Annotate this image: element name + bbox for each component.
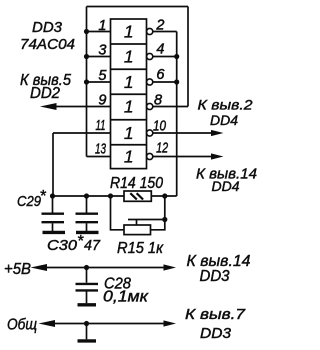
arrow ground left xyxy=(39,320,56,327)
arrow output 12 to DD4 pin14 xyxy=(211,153,224,159)
svg-text:R15 1к: R15 1к xyxy=(117,240,164,257)
node output bus pin4 xyxy=(174,54,179,59)
wire output pin12 to arrow xyxy=(153,156,212,158)
arrow ground rail to DD3 pin7 xyxy=(164,320,177,326)
svg-text:74AC04: 74AC04 xyxy=(20,36,75,53)
node input bus pin1 xyxy=(84,29,89,34)
arrow +5V rail to DD3 pin14 xyxy=(164,264,177,270)
svg-text:C30: C30 xyxy=(47,237,78,254)
svg-text:C29: C29 xyxy=(17,193,42,210)
svg-text:DD4: DD4 xyxy=(210,112,238,128)
svg-text:13: 13 xyxy=(95,142,106,158)
svg-text:Общ: Общ xyxy=(7,317,37,334)
capacitor C30 plates xyxy=(76,212,99,214)
divider 4-5 xyxy=(111,119,147,121)
svg-text:DD3: DD3 xyxy=(200,268,230,285)
svg-text:1: 1 xyxy=(124,147,134,167)
inverter bubble pin4 xyxy=(147,53,153,59)
wire input pin9 from DD2 arrow xyxy=(54,106,111,108)
divider 1-2 xyxy=(111,43,147,45)
capacitor C30 leads xyxy=(86,196,88,213)
inverter bubble pin6 xyxy=(147,79,153,85)
resistor R14 body xyxy=(124,191,151,201)
node C29 top xyxy=(50,193,55,198)
wire left bus verticals inputs 1-3-5-11-13 xyxy=(86,7,88,157)
wire output pin8 to feedback xyxy=(153,106,188,108)
wire output pin4 xyxy=(153,56,177,58)
wire input pin13 xyxy=(87,156,111,158)
capacitor C29 leads xyxy=(52,196,54,213)
divider 5-6 xyxy=(111,144,147,146)
wire input pin1 xyxy=(87,31,111,33)
wire bottom bus node A xyxy=(53,195,125,197)
svg-text:DD4: DD4 xyxy=(212,178,240,194)
svg-text:9: 9 xyxy=(98,93,106,109)
node R15 right xyxy=(162,193,167,198)
wire input pin5 xyxy=(87,81,111,83)
svg-text:1: 1 xyxy=(124,72,134,92)
svg-text:1: 1 xyxy=(124,123,134,143)
node R15 left xyxy=(108,193,113,198)
svg-text:8: 8 xyxy=(154,93,162,109)
svg-text:0,1мк: 0,1мк xyxy=(103,289,149,306)
svg-text:1: 1 xyxy=(124,97,134,117)
divider 2-3 xyxy=(111,68,147,70)
wire ground stub below rail xyxy=(86,324,88,340)
svg-text:R14 150: R14 150 xyxy=(110,175,163,192)
node C28 top xyxy=(84,265,89,270)
node R15 tap junction xyxy=(162,217,167,222)
arrow +5V left xyxy=(31,264,48,271)
svg-text:2: 2 xyxy=(155,18,164,34)
wire output pin2 xyxy=(153,31,177,33)
svg-text:1: 1 xyxy=(124,22,134,42)
svg-text:К выв.2: К выв.2 xyxy=(198,97,253,113)
wire output pin6 xyxy=(153,81,177,83)
divider 3-4 xyxy=(111,93,147,95)
capacitor C28 leads xyxy=(86,268,88,283)
svg-text:47: 47 xyxy=(84,237,101,254)
svg-text:1: 1 xyxy=(124,47,134,67)
wire input pin11 xyxy=(53,132,111,134)
wire right feedback vertical from output 8 xyxy=(187,7,189,107)
svg-text:+5В: +5В xyxy=(4,261,31,278)
resistor R15 body xyxy=(124,225,151,235)
svg-text:12: 12 xyxy=(156,141,168,157)
svg-text:4: 4 xyxy=(156,42,164,58)
arrow to DD2 pin5 xyxy=(40,103,57,110)
wire from pin11 down to C29 node xyxy=(52,133,54,196)
inverter bubble pin8 xyxy=(147,103,153,109)
svg-text:1: 1 xyxy=(98,18,106,34)
ground chassis bar under C30 xyxy=(76,231,99,234)
ground chassis bar under rail xyxy=(78,339,97,342)
node C30 top xyxy=(84,193,89,198)
wire R15 trimmer tap xyxy=(136,220,138,226)
capacitor C28 plates xyxy=(76,283,99,285)
wire input pin3 xyxy=(87,56,111,58)
wire top feedback horizontal xyxy=(87,6,189,8)
capacitor C29 plates xyxy=(42,212,65,214)
resistor R14 power marks xyxy=(130,193,137,199)
svg-text:6: 6 xyxy=(156,67,165,83)
svg-text:*: * xyxy=(40,188,47,205)
svg-text:DD2: DD2 xyxy=(30,85,60,102)
wire R14 right to inner bus xyxy=(151,195,176,197)
svg-text:3: 3 xyxy=(98,43,106,59)
inverter bubble pin2 xyxy=(147,28,153,34)
op-amp U1 body: hex inverter DD3 stack outline xyxy=(111,19,147,169)
wire R15 right lead xyxy=(151,196,165,230)
svg-text:10: 10 xyxy=(153,119,166,135)
svg-text:5: 5 xyxy=(98,68,107,84)
wire R15 left lead xyxy=(111,196,125,230)
wire inner bus outputs 2-4-6 down to R14 xyxy=(176,32,178,197)
inverter bubble pin12 xyxy=(147,153,153,159)
svg-text:DD3: DD3 xyxy=(32,19,63,36)
wire Obshch ground rail xyxy=(53,323,165,325)
node ground rail xyxy=(84,321,89,326)
node input bus pin3 xyxy=(84,54,89,59)
node input bus pin5 xyxy=(84,79,89,84)
ground chassis bar under C28 xyxy=(78,303,97,306)
arrow output 10 to DD4 pin2 xyxy=(211,130,224,136)
wire +5V rail xyxy=(45,267,165,269)
svg-text:DD3: DD3 xyxy=(200,326,231,342)
svg-text:11: 11 xyxy=(96,118,106,134)
inverter bubble pin10 xyxy=(147,130,153,136)
ground chassis bar under C29 xyxy=(43,231,66,234)
svg-text:К выв.7: К выв.7 xyxy=(185,306,246,323)
node output bus pin6 xyxy=(174,79,179,84)
wire output pin10 to arrow xyxy=(153,132,212,134)
svg-text:*: * xyxy=(77,233,84,250)
